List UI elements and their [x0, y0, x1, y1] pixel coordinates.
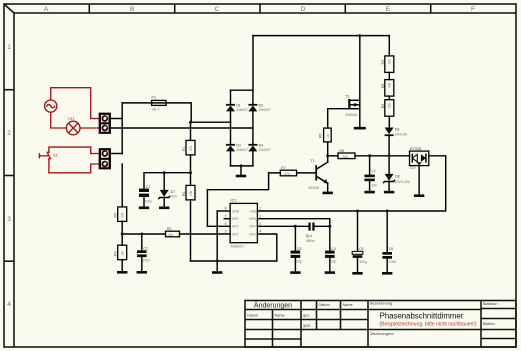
wire R9 to IC pin5: [180, 233, 231, 235]
node T3 drain tap: [358, 34, 361, 37]
wire IC pin3 crystal line: [257, 225, 329, 227]
svg-text:1k: 1k: [326, 134, 330, 138]
svg-text:GP2: GP2: [232, 232, 239, 236]
svg-text:2: 2: [259, 214, 261, 218]
svg-text:2: 2: [7, 130, 11, 137]
wire supply rail to C1: [144, 173, 191, 189]
svg-text:C: C: [215, 6, 220, 13]
node C3 tap: [294, 225, 297, 228]
lamp La1: [66, 116, 80, 135]
capacitor C7: [364, 156, 377, 194]
svg-text:AN88T2: AN88T2: [231, 245, 244, 249]
svg-text:BC548: BC548: [309, 186, 319, 190]
svg-text:3: 3: [259, 222, 261, 226]
connector X1: [99, 113, 110, 133]
switch S1: [39, 147, 90, 173]
svg-text:Zeichnungsnr.:: Zeichnungsnr.:: [370, 332, 395, 336]
svg-text:6: 6: [225, 222, 227, 226]
fuse F1: [152, 96, 167, 112]
svg-text:C4: C4: [331, 247, 336, 251]
svg-text:R9: R9: [167, 227, 172, 231]
svg-text:100n: 100n: [145, 199, 153, 203]
wire T1 collector: [327, 156, 329, 162]
wire rail to T3 drain: [359, 36, 361, 101]
wire R6 to T1 base: [297, 172, 316, 174]
svg-text:Name: Name: [275, 313, 285, 317]
svg-text:A: A: [44, 6, 49, 13]
svg-text:R5: R5: [381, 84, 385, 89]
capacitor C5: [352, 211, 367, 275]
zener diode D7: [159, 173, 177, 209]
svg-text:33k: 33k: [388, 103, 392, 109]
resistor R3b: [381, 56, 394, 73]
IC1 body: [230, 198, 257, 249]
svg-text:GP1: GP1: [232, 225, 239, 229]
svg-text:T3: T3: [345, 95, 349, 99]
resistor R4b: [381, 80, 394, 97]
capacitor C2: [137, 234, 150, 274]
node C6 tap: [386, 210, 389, 213]
wire vertical fuse branch: [121, 103, 123, 154]
wire switch top to X2-1: [91, 147, 100, 153]
svg-text:100n: 100n: [389, 260, 397, 264]
svg-text:8: 8: [225, 207, 227, 211]
svg-text:E: E: [386, 6, 391, 13]
capacitor C1: [139, 185, 152, 203]
resistor R3: [114, 207, 127, 222]
wire R5b to D6: [388, 116, 390, 127]
wire IC pin2 to C4 column: [257, 219, 329, 251]
svg-text:4: 4: [7, 301, 11, 308]
svg-text:R1: R1: [182, 146, 186, 151]
wire to fuse: [122, 102, 151, 104]
AC source G1: [45, 100, 57, 112]
svg-text:C6: C6: [389, 247, 394, 251]
svg-text:F1: F1: [152, 96, 156, 100]
top rail wire: [253, 35, 389, 37]
svg-text:33k: 33k: [388, 82, 392, 88]
svg-text:R7: R7: [281, 166, 286, 170]
svg-text:32V: 32V: [410, 166, 417, 170]
wire D6 to node: [388, 136, 390, 174]
svg-text:C2: C2: [143, 247, 148, 251]
svg-text:1: 1: [259, 207, 261, 211]
svg-text:100µ: 100µ: [359, 260, 367, 264]
svg-text:D4: D4: [259, 144, 264, 148]
transistor T1: [309, 159, 328, 190]
svg-text:3A,T: 3A,T: [152, 108, 161, 112]
wire IC pin8 to gnd drop: [217, 210, 230, 212]
node C5 tap: [356, 210, 359, 213]
wire IC pin7 stub: [224, 218, 230, 220]
svg-text:1N4148: 1N4148: [395, 132, 407, 136]
zener diode D8: [384, 174, 411, 191]
bridge bottom wire: [231, 165, 253, 167]
title block: [245, 301, 516, 348]
ground diac: [414, 194, 424, 197]
ground T3: [354, 127, 366, 130]
wire X2-2 down to R3: [121, 164, 123, 207]
svg-text:7: 7: [225, 214, 227, 218]
resistor R4: [114, 245, 127, 260]
svg-text:Bezeichnung:: Bezeichnung:: [370, 302, 393, 306]
diode D6: [385, 127, 407, 136]
svg-text:1N4007: 1N4007: [259, 148, 271, 152]
wire lamp to X1-2: [80, 127, 99, 129]
svg-text:1M: 1M: [168, 233, 173, 237]
wire X1-2 main line: [110, 127, 253, 129]
wire X2-1: [110, 153, 122, 155]
svg-text:R3: R3: [114, 213, 118, 218]
svg-text:R8: R8: [339, 149, 344, 153]
connector X2: [99, 149, 110, 169]
svg-text:R6: R6: [381, 104, 385, 109]
node R7-R8-T1 junction: [326, 154, 329, 157]
svg-text:C7: C7: [371, 169, 376, 173]
svg-text:D: D: [301, 6, 306, 13]
svg-text:D1: D1: [236, 104, 241, 108]
svg-text:D2: D2: [259, 104, 264, 108]
wire T3 gate to R7: [328, 109, 349, 128]
wire R8 to diac: [355, 155, 410, 157]
svg-text:2N5462: 2N5462: [346, 113, 358, 117]
svg-text:gez.:: gez.:: [303, 313, 311, 317]
capacitor C6: [382, 211, 397, 275]
svg-text:10n: 10n: [371, 184, 377, 188]
node D6-D8 junction: [388, 154, 391, 157]
svg-text:F: F: [471, 6, 475, 13]
svg-text:100n: 100n: [142, 259, 150, 263]
resistor R9: [166, 227, 180, 237]
svg-text:D6: D6: [395, 127, 400, 131]
ground R4: [117, 260, 127, 274]
resistor R7: [318, 128, 331, 142]
svg-text:10k: 10k: [189, 190, 193, 196]
node bridge ground junction: [240, 164, 243, 167]
svg-text:3: 3: [7, 216, 11, 223]
wire gnd drop vertical: [216, 211, 218, 271]
diac DC1: [410, 147, 429, 170]
svg-text:(Beispielzeichnung, bitte nich: (Beispielzeichnung, bitte nicht nachbaue…: [379, 322, 476, 328]
node fuse-R1 tap: [189, 121, 192, 124]
wire R3 to R4: [121, 221, 123, 245]
wire fuse to bridge: [166, 103, 230, 122]
diode D1: [226, 104, 248, 113]
wire diac right to rail: [257, 156, 445, 211]
wire source top to X1-1: [51, 88, 100, 119]
svg-text:S1: S1: [53, 153, 59, 158]
svg-text:33k: 33k: [388, 59, 392, 65]
wire R3b to R4b: [388, 72, 390, 79]
wire R9 line left: [122, 233, 165, 235]
transistor T3: [345, 95, 360, 127]
svg-text:gepr.:: gepr.:: [303, 323, 313, 327]
svg-text:1M: 1M: [121, 213, 125, 218]
wire R7 to node: [327, 142, 329, 156]
svg-text:47k: 47k: [284, 172, 290, 176]
svg-text:5: 5: [225, 230, 227, 234]
wire diac bottom to gnd: [418, 166, 420, 195]
svg-text:Qu1: Qu1: [306, 234, 313, 238]
svg-text:Phasenabschnittdimmer: Phasenabschnittdimmer: [380, 312, 464, 321]
wire R4b to R5b: [388, 96, 390, 100]
ground C1: [139, 197, 149, 209]
svg-text:10V/1,3W: 10V/1,3W: [395, 180, 411, 184]
wire gnd bus: [191, 260, 277, 262]
svg-text:T1: T1: [311, 159, 315, 163]
diode D4: [248, 144, 270, 153]
svg-text:R4: R4: [381, 60, 385, 65]
node supply rail junction: [189, 171, 192, 174]
svg-text:Blattanz.:: Blattanz.:: [483, 302, 499, 306]
svg-text:GP3: GP3: [249, 232, 256, 236]
svg-text:La1: La1: [68, 116, 75, 121]
svg-text:Änderungen: Änderungen: [254, 302, 292, 310]
node C2 tap: [140, 233, 143, 236]
svg-text:R4: R4: [114, 251, 118, 256]
wire node to R8: [328, 155, 338, 157]
wire source bottom to lamp: [51, 112, 67, 128]
svg-text:Datum: Datum: [247, 313, 258, 317]
svg-text:C1: C1: [146, 185, 151, 189]
bridge left column wires: [230, 90, 232, 166]
wire fuse node down to R1: [190, 122, 192, 140]
resistor R8: [338, 149, 355, 159]
svg-text:R6: R6: [318, 133, 322, 138]
svg-text:4: 4: [259, 230, 261, 234]
svg-text:10k: 10k: [343, 155, 349, 159]
wire IC pin4 to gnd bus: [257, 234, 276, 261]
wire switch bottom to X2-2: [49, 164, 100, 173]
svg-text:GP0: GP0: [232, 217, 239, 221]
svg-text:1: 1: [7, 44, 11, 51]
svg-text:Blattnr.:: Blattnr.:: [483, 322, 496, 326]
node C7 tap: [368, 154, 371, 157]
svg-text:D3: D3: [236, 144, 241, 148]
ground bridge: [236, 166, 246, 177]
svg-text:1N4007: 1N4007: [236, 148, 248, 152]
svg-text:GP5: GP5: [249, 217, 256, 221]
node crystal right junction: [328, 225, 331, 228]
capacitor C4: [325, 247, 337, 274]
svg-text:GND: GND: [232, 209, 240, 213]
svg-text:1N4007: 1N4007: [259, 108, 271, 112]
wire rail down to R3b: [388, 36, 390, 56]
wire R1 to R2: [190, 155, 192, 186]
svg-text:1N4007: 1N4007: [236, 108, 248, 112]
node D7 tap: [163, 171, 166, 174]
wire IC pin6 to R6 net: [207, 173, 280, 226]
svg-text:HT32B: HT32B: [410, 147, 422, 151]
svg-text:C5: C5: [359, 247, 364, 251]
svg-text:R2: R2: [182, 191, 186, 196]
svg-text:Datum: Datum: [319, 303, 330, 307]
svg-text:47k: 47k: [189, 145, 193, 151]
svg-text:C3: C3: [297, 247, 302, 251]
crystal Qu1: [306, 223, 315, 243]
ground T1 emitter: [323, 183, 333, 194]
bridge top wire: [231, 36, 254, 91]
wire X1-1 to junction: [110, 118, 122, 120]
svg-text:22p: 22p: [296, 260, 302, 264]
capacitor C3: [290, 226, 302, 274]
svg-text:Name: Name: [343, 303, 353, 307]
svg-text:IC1: IC1: [231, 198, 238, 203]
svg-text:D7: D7: [171, 190, 176, 194]
ground D8: [384, 191, 394, 194]
svg-text:GP4: GP4: [249, 225, 256, 229]
wire R2 to gnd bus: [190, 200, 192, 261]
svg-text:3V9: 3V9: [171, 195, 177, 199]
svg-text:B: B: [130, 6, 134, 13]
node R3-R4-R9 junction: [121, 233, 124, 236]
resistor R2: [182, 185, 195, 200]
svg-text:D8: D8: [395, 174, 400, 178]
diode D2: [248, 104, 270, 113]
bridge right column wires: [252, 90, 254, 166]
svg-text:22p: 22p: [331, 260, 337, 264]
svg-text:4MHz: 4MHz: [306, 239, 315, 243]
resistor R5b: [381, 100, 394, 117]
ground IC: [212, 271, 222, 274]
svg-text:Vdd: Vdd: [250, 209, 256, 213]
diode D3: [226, 144, 248, 153]
resistor R7: [280, 166, 296, 176]
svg-text:1M: 1M: [121, 251, 125, 256]
node gnd bus junction: [216, 260, 219, 263]
resistor R1: [182, 140, 195, 155]
